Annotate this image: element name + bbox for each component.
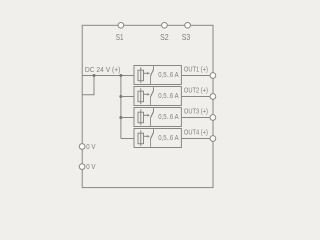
svg-text:OUT4 (+): OUT4 (+) <box>184 127 208 136</box>
switch channel 4 <box>144 129 154 147</box>
terminal OUT1 <box>210 73 216 79</box>
svg-text:OUT2 (+): OUT2 (+) <box>184 85 208 94</box>
svg-text:OUT1 (+): OUT1 (+) <box>184 64 208 73</box>
svg-text:0,5..6 A: 0,5..6 A <box>158 133 179 142</box>
terminal 0V upper <box>79 144 85 150</box>
switch channel 2 <box>144 87 154 105</box>
fuse F2 <box>138 88 144 104</box>
wire: distribution bus <box>120 76 122 139</box>
fuse F4 <box>138 130 144 146</box>
channel 3 block <box>134 108 181 127</box>
node: bus junction 1 <box>119 74 122 77</box>
svg-text:S3: S3 <box>182 33 191 42</box>
channel 1 block <box>134 66 181 85</box>
terminal OUT2 <box>210 94 216 100</box>
enclosure border <box>82 25 213 187</box>
svg-text:0 V: 0 V <box>86 162 95 171</box>
svg-text:0,5..6 A: 0,5..6 A <box>158 91 179 100</box>
node: junction dot on feed <box>93 74 96 77</box>
svg-text:S1: S1 <box>116 33 124 42</box>
svg-text:S2: S2 <box>160 33 169 42</box>
wire: stub to channel 4 <box>121 138 134 140</box>
wire: channel 3 output <box>181 117 210 119</box>
wire: input jumper loop <box>82 76 94 95</box>
terminal S3 <box>185 22 191 28</box>
wire: DC 24V feed <box>82 75 134 77</box>
svg-text:DC 24 V (+): DC 24 V (+) <box>85 65 121 74</box>
svg-text:0 V: 0 V <box>86 142 95 151</box>
terminal S1 <box>118 22 124 28</box>
channel 2 block <box>134 87 181 106</box>
fuse F1 <box>138 67 144 83</box>
terminal 0V lower <box>79 164 85 170</box>
node: bus junction 2 <box>119 95 122 98</box>
node: bus junction 3 <box>119 116 122 119</box>
svg-text:OUT3 (+): OUT3 (+) <box>184 106 208 115</box>
terminal OUT4 <box>210 136 216 142</box>
switch channel 1 <box>144 66 154 84</box>
wire: channel 4 output <box>181 138 210 140</box>
channel 4 block <box>134 129 181 148</box>
terminal OUT3 <box>210 115 216 121</box>
svg-text:0,5..6 A: 0,5..6 A <box>158 112 179 121</box>
wire: channel 2 output <box>181 96 210 98</box>
wire: stub to channel 3 <box>121 117 134 119</box>
switch channel 3 <box>144 108 154 126</box>
fuse F3 <box>138 109 144 125</box>
svg-text:0,5..6 A: 0,5..6 A <box>158 70 179 79</box>
terminal S2 <box>162 22 168 28</box>
wire: stub to channel 2 <box>121 96 134 98</box>
wire: channel 1 output <box>181 75 210 77</box>
